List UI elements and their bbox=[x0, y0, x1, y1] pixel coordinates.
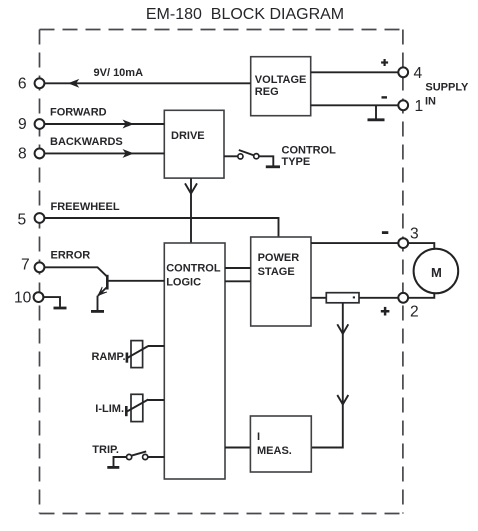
motor M1 bbox=[408, 243, 458, 298]
arrowhead right on BACKWARDS wire bbox=[124, 150, 133, 157]
wire CONTROL LOGIC to POWER STAGE upper bbox=[225, 267, 251, 269]
wire TRIP switch to CONTROL LOGIC bbox=[148, 456, 165, 458]
svg-text:5: 5 bbox=[18, 211, 27, 228]
svg-text:FREEWHEEL: FREEWHEEL bbox=[51, 201, 120, 213]
svg-text:TYPE: TYPE bbox=[282, 156, 311, 168]
terminal pin 8 bbox=[35, 149, 45, 159]
svg-text:I: I bbox=[257, 431, 260, 443]
svg-text:4: 4 bbox=[414, 65, 423, 82]
current measure block I MEAS bbox=[250, 416, 311, 472]
label + motor bbox=[381, 310, 390, 313]
svg-text:EM-180 BLOCK DIAGRAM: EM-180 BLOCK DIAGRAM bbox=[146, 6, 344, 23]
svg-text:STAGE: STAGE bbox=[258, 266, 295, 278]
ground for TRIP switch bbox=[107, 466, 119, 469]
arrowhead down upper on sense wire bbox=[337, 324, 348, 333]
svg-text:SUPPLY: SUPPLY bbox=[425, 82, 469, 94]
wire DRIVE to CONTROL TYPE switch bbox=[224, 155, 238, 157]
svg-text:FORWARD: FORWARD bbox=[50, 107, 107, 119]
svg-text:7: 7 bbox=[21, 257, 30, 274]
terminal pin 9 bbox=[35, 119, 45, 129]
svg-text:RAMP.: RAMP. bbox=[91, 351, 125, 363]
svg-text:IN: IN bbox=[425, 95, 436, 107]
ground for transistor bbox=[91, 310, 104, 313]
wire FREEWHEEL pin 5 to POWER STAGE bbox=[44, 218, 278, 237]
svg-text:POWER: POWER bbox=[258, 252, 300, 264]
svg-text:I-LIM.: I-LIM. bbox=[95, 403, 124, 415]
wire VOLTAGE REG - output to pin 1 bbox=[311, 104, 399, 106]
wire transistor emitter to ground bbox=[97, 296, 99, 311]
potentiometer I-LIM bbox=[126, 394, 148, 421]
terminal pin 2 bbox=[398, 293, 408, 303]
arrowhead down lower on sense wire bbox=[337, 395, 348, 404]
switch S1 CONTROL TYPE bbox=[238, 150, 259, 159]
terminal pin 3 bbox=[398, 238, 408, 248]
label + supply bbox=[381, 61, 388, 63]
ground for pin 10 bbox=[54, 307, 67, 310]
wire VOLTAGE REG + output to pin 4 bbox=[311, 71, 399, 73]
wire sense resistor down to I MEAS bbox=[311, 303, 343, 448]
svg-text:MEAS.: MEAS. bbox=[257, 445, 292, 457]
svg-text:8: 8 bbox=[18, 146, 27, 163]
wire I-LIM pot to CONTROL LOGIC bbox=[148, 399, 164, 401]
wire POWER STAGE to pin 3 bbox=[311, 242, 398, 244]
voltage regulator U1 VOLTAGE REG bbox=[251, 57, 311, 116]
transistor Q1 on ERROR line bbox=[98, 275, 164, 296]
svg-text:6: 6 bbox=[18, 76, 27, 93]
svg-text:10: 10 bbox=[14, 290, 32, 307]
svg-text:M: M bbox=[431, 265, 442, 280]
wire sense resistor to pin 2 bbox=[359, 297, 398, 299]
svg-text:VOLTAGE: VOLTAGE bbox=[255, 74, 307, 86]
ground for CONTROL TYPE switch bbox=[266, 165, 280, 168]
terminal pin 6 bbox=[35, 78, 45, 88]
terminal pin 4 bbox=[398, 67, 408, 77]
svg-text:ERROR: ERROR bbox=[51, 250, 91, 262]
arrowhead down below DRIVE bbox=[185, 183, 197, 193]
potentiometer RAMP bbox=[127, 341, 148, 368]
wire switch to ground bbox=[259, 156, 273, 165]
wire CONTROL LOGIC to I MEAS bbox=[225, 447, 250, 449]
terminal pin 5 bbox=[35, 213, 45, 223]
svg-text:CONTROL: CONTROL bbox=[166, 263, 221, 275]
control logic block CONTROL LOGIC bbox=[164, 243, 225, 479]
arrowhead right on FORWARD wire bbox=[124, 120, 133, 127]
svg-text:3: 3 bbox=[410, 226, 419, 243]
dashed boundary box bbox=[40, 30, 403, 514]
svg-text:9V/ 10mA: 9V/ 10mA bbox=[94, 67, 144, 79]
arrowhead left on 9V/10mA wire bbox=[69, 80, 78, 87]
power stage block POWER STAGE bbox=[251, 237, 311, 326]
wire POWER STAGE to sense resistor bbox=[311, 297, 326, 299]
wire pin 10 to ground bbox=[43, 297, 60, 307]
label - supply bbox=[382, 96, 388, 98]
svg-text:CONTROL: CONTROL bbox=[282, 144, 337, 156]
resistor R1 current sense bbox=[326, 293, 359, 303]
ground on supply - line bbox=[368, 105, 385, 120]
drive block DRIVE bbox=[164, 110, 224, 178]
svg-text:2: 2 bbox=[410, 303, 419, 320]
wire DRIVE down to CONTROL LOGIC bbox=[190, 178, 192, 243]
svg-text:DRIVE: DRIVE bbox=[171, 130, 205, 142]
wire CONTROL LOGIC to POWER STAGE lower bbox=[225, 280, 251, 282]
svg-text:BACKWARDS: BACKWARDS bbox=[50, 136, 123, 148]
svg-text:REG: REG bbox=[255, 86, 279, 98]
svg-text:TRIP.: TRIP. bbox=[92, 444, 119, 456]
terminal pin 1 bbox=[398, 100, 408, 110]
svg-text:9: 9 bbox=[18, 116, 27, 133]
wire RAMP pot to CONTROL LOGIC bbox=[148, 345, 164, 347]
switch S2 TRIP bbox=[127, 451, 148, 459]
wire 9V/10mA from VOLTAGE REG to pin 6 bbox=[44, 82, 250, 84]
label - motor bbox=[382, 231, 388, 234]
wire ERROR pin 7 to transistor bbox=[44, 267, 107, 277]
wire FORWARD pin 9 to DRIVE bbox=[44, 123, 164, 125]
wire TRIP switch to ground bbox=[114, 457, 127, 466]
svg-text:LOGIC: LOGIC bbox=[166, 277, 201, 289]
terminal pin 7 bbox=[35, 262, 45, 272]
wire BACKWARDS pin 8 to DRIVE bbox=[44, 152, 164, 154]
terminal pin 10 bbox=[34, 292, 44, 302]
svg-text:1: 1 bbox=[415, 98, 424, 115]
